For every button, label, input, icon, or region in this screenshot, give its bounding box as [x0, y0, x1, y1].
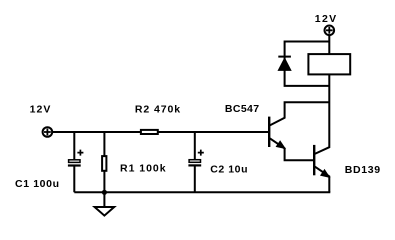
svg-text:BD139: BD139	[345, 164, 380, 176]
svg-text:R1 100k: R1 100k	[120, 163, 166, 175]
svg-text:BC547: BC547	[225, 103, 259, 115]
svg-text:R2 470k: R2 470k	[135, 103, 180, 115]
svg-text:12V: 12V	[315, 13, 336, 25]
svg-text:C2 10u: C2 10u	[210, 163, 247, 175]
svg-text:12V: 12V	[30, 103, 51, 115]
svg-text:C1 100u: C1 100u	[15, 178, 59, 190]
